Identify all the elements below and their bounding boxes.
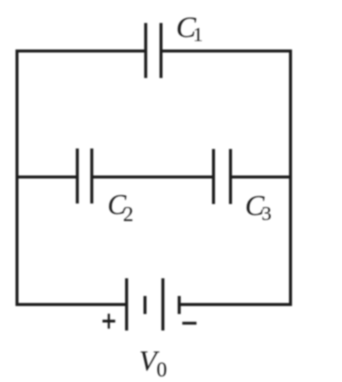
svg-text:0: 0 [157,358,168,382]
svg-text:3: 3 [262,203,272,225]
wire top-left to C1 left plate [17,51,146,177]
capacitor C1 [146,23,161,78]
capacitor C3 [214,149,231,204]
svg-text:2: 2 [123,202,134,226]
svg-text:1: 1 [193,24,203,46]
wire middle right segment [231,176,291,179]
minus polarity mark [182,322,196,325]
battery V0 [127,278,180,330]
wire right side lower [179,177,290,305]
plus polarity mark [103,314,116,329]
wire middle left segment [17,176,77,179]
wire left side lower [17,177,127,305]
capacitor C2 [77,149,92,204]
wire C1 right plate to top-right corner [161,51,291,177]
wire between C2 and C3 [92,176,214,179]
